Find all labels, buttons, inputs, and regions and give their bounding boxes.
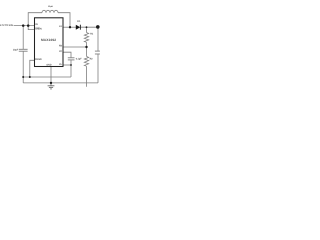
wire GND pin drop (50, 67, 52, 83)
wire ground G1 (23, 76, 71, 78)
resistor R2 (84, 56, 88, 66)
wire cap bottom to ground wire (70, 60, 72, 77)
node A input/cap junction (22, 24, 25, 27)
wire CF pin to cap (63, 52, 71, 58)
capacitor C2 output plates (95, 50, 100, 52)
wire FB pin to divider (63, 46, 87, 48)
inductor L1 (42, 10, 58, 12)
svg-text:FB: FB (59, 45, 62, 48)
wire input cap rail lower (22, 51, 24, 83)
wire R1 bottom stub (86, 42, 88, 47)
node cap-rail/G1 junction (22, 76, 24, 78)
capacitor C1 input plates (19, 48, 28, 50)
svg-text:SHDN: SHDN (35, 27, 42, 30)
wire LX pin to diode (63, 26, 76, 28)
wire input cap rail upper (22, 26, 24, 50)
wire R2 top stub (86, 47, 88, 56)
node FB junction (85, 46, 87, 48)
svg-text:0.1µF: 0.1µF (76, 58, 83, 61)
wire input to IN pin (14, 25, 35, 27)
svg-text:GND: GND (46, 63, 51, 66)
wire inductor to LX drop (58, 13, 70, 28)
svg-text:D1: D1 (77, 20, 81, 23)
node CL junction (70, 64, 72, 66)
wire ground bus G2 (23, 82, 98, 84)
wire CL pin (63, 64, 71, 66)
svg-text:PGND: PGND (35, 58, 42, 61)
node R1 tap (86, 26, 88, 28)
node B input/top-rail junction (27, 24, 30, 27)
svg-text:MAX1692: MAX1692 (41, 38, 56, 42)
node PGND/G1 junction (29, 76, 31, 78)
wire vin riser to top rail (28, 13, 42, 26)
svg-text:IN: IN (35, 23, 38, 26)
svg-text:LX: LX (59, 25, 62, 28)
wire output rail lower (97, 54, 99, 83)
svg-text:10µF: 10µF (13, 48, 19, 51)
wire output rail upper (97, 27, 99, 51)
wire diode to output node (81, 26, 98, 28)
node output terminal (96, 25, 100, 29)
resistor R1 (84, 33, 88, 43)
capacitor C3 plates (68, 57, 75, 59)
svg-text:2.7V TO 5.5V: 2.7V TO 5.5V (0, 24, 14, 27)
wire R1 top stub (86, 27, 88, 32)
wire R2 bottom to bus (86, 66, 88, 87)
node LX junction (69, 26, 71, 28)
diode D1 (76, 25, 81, 30)
op-amp U1 MAX1692 box (35, 18, 64, 67)
node GND/bus junction (50, 82, 52, 84)
wire SHDN tie to IN (28, 26, 34, 30)
pin SHDN overline (35, 26, 40, 28)
node junction dots (22, 24, 100, 84)
ground (50, 83, 52, 86)
svg-text:10µH: 10µH (48, 5, 53, 8)
wire PGND pin to rail (30, 60, 35, 77)
